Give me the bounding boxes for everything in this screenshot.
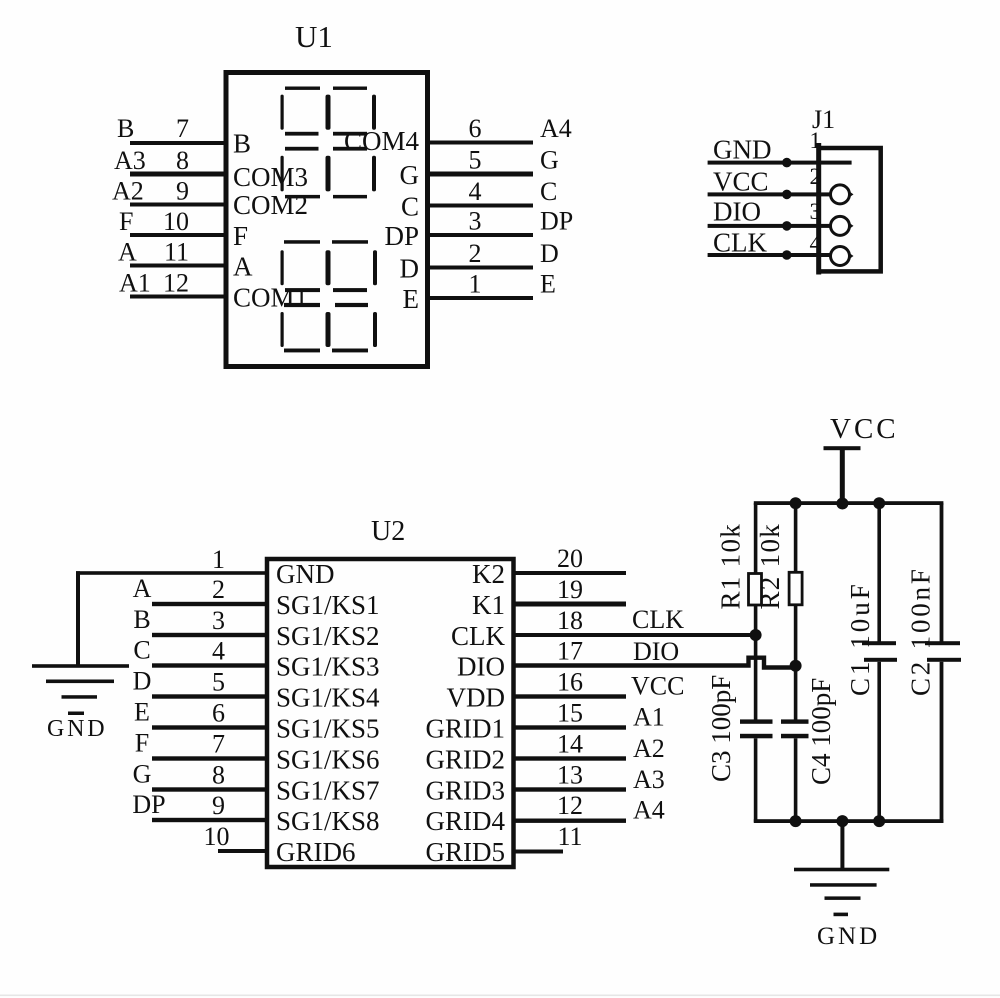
svg-text:GND: GND: [47, 716, 107, 742]
capacitor C1: [862, 641, 896, 645]
svg-text:C: C: [540, 177, 557, 206]
svg-text:14: 14: [557, 730, 583, 759]
wire pin11 A: [130, 264, 226, 268]
svg-text:DIO: DIO: [633, 637, 679, 666]
svg-text:VDD: VDD: [447, 683, 506, 713]
display U1 body: [226, 73, 428, 367]
svg-text:A3: A3: [114, 146, 146, 175]
capacitor C4: [781, 719, 809, 723]
svg-text:COM3: COM3: [233, 162, 308, 192]
svg-text:8: 8: [212, 761, 225, 790]
wire pin9 COM2: [130, 203, 226, 207]
svg-text:11: 11: [164, 238, 189, 267]
svg-text:GRID4: GRID4: [426, 806, 506, 836]
wire CLK to J1 pin4: [708, 253, 831, 257]
svg-text:13: 13: [557, 761, 583, 790]
svg-text:GRID2: GRID2: [426, 745, 506, 775]
svg-text:F: F: [233, 221, 248, 251]
VCC power bar: [824, 446, 861, 450]
svg-text:C1 10uF: C1 10uF: [845, 581, 875, 696]
svg-text:F: F: [119, 207, 133, 236]
svg-text:SG1/KS4: SG1/KS4: [276, 683, 380, 713]
wire pin1 E: [428, 296, 533, 300]
svg-text:DP: DP: [132, 790, 165, 819]
svg-text:K2: K2: [472, 559, 505, 589]
wire pin20 K2: [514, 571, 627, 575]
wire C1 to bottom rail: [877, 662, 881, 823]
bottom rail wire: [754, 819, 944, 823]
svg-text:2: 2: [469, 239, 482, 268]
svg-text:6: 6: [212, 699, 225, 728]
resistor R1: [749, 574, 762, 606]
svg-text:C: C: [401, 192, 419, 222]
svg-text:3: 3: [469, 207, 482, 236]
wire pin15 GRID1: [514, 725, 627, 729]
svg-text:DIO: DIO: [713, 197, 761, 227]
wire pin4 C: [152, 663, 267, 667]
svg-text:A4: A4: [540, 114, 572, 143]
junction dot rail/VCC: [836, 498, 848, 510]
svg-text:12: 12: [557, 791, 583, 820]
wire pin16 VDD: [514, 694, 627, 698]
svg-text:DIO: DIO: [457, 652, 505, 682]
svg-text:18: 18: [557, 606, 583, 635]
svg-text:11: 11: [557, 822, 582, 851]
capacitor C2: [925, 641, 960, 645]
svg-text:4: 4: [212, 637, 225, 666]
VCC stem: [840, 448, 845, 505]
svg-text:2: 2: [810, 164, 822, 189]
svg-text:SG1/KS1: SG1/KS1: [276, 590, 380, 620]
pin2 contact circle: [831, 185, 850, 204]
pin3 contact circle: [831, 216, 850, 235]
svg-text:A: A: [133, 574, 152, 603]
svg-text:G: G: [400, 160, 420, 190]
wire pin18 CLK: [514, 633, 757, 637]
svg-text:15: 15: [557, 699, 583, 728]
junction on DIO wire: [782, 221, 792, 231]
svg-text:5: 5: [469, 146, 482, 175]
svg-text:R2 10k: R2 10k: [755, 523, 785, 610]
svg-text:C2 100nF: C2 100nF: [906, 566, 936, 696]
wire pin11 GRID5: [514, 850, 564, 854]
junction dot bottom/GND: [836, 815, 848, 827]
ground symbol left: [32, 664, 129, 715]
svg-text:7: 7: [176, 114, 189, 143]
svg-text:GRID3: GRID3: [426, 776, 506, 806]
junction on VCC wire: [782, 190, 792, 200]
junction on CLK wire: [782, 250, 792, 260]
wire pin19 K1: [514, 602, 627, 607]
wire R1 to CLK node: [754, 605, 758, 636]
svg-text:2: 2: [212, 575, 225, 604]
wire pin5 D: [152, 694, 267, 698]
junction dot rail/R2: [790, 497, 802, 509]
svg-text:SG1/KS5: SG1/KS5: [276, 714, 380, 744]
svg-text:1: 1: [810, 128, 822, 153]
svg-text:A1: A1: [119, 269, 151, 298]
svg-text:GRID1: GRID1: [426, 714, 506, 744]
wire CLK node to C3: [754, 635, 758, 721]
svg-text:17: 17: [557, 637, 583, 666]
wire pin1 GND: [76, 571, 267, 575]
svg-text:DP: DP: [540, 207, 573, 236]
wire DIO to J1 pin3: [708, 224, 831, 228]
junction dot C1/bottom rail: [873, 815, 885, 827]
wire pin7 B: [130, 141, 226, 145]
svg-text:3: 3: [810, 199, 822, 224]
wire pin8 COM3: [130, 172, 226, 177]
wire pin8 G: [152, 787, 267, 791]
wire to ground: [840, 821, 844, 870]
svg-text:A3: A3: [633, 765, 665, 794]
svg-text:CLK: CLK: [451, 621, 506, 651]
svg-text:F: F: [135, 728, 149, 757]
svg-text:D: D: [540, 239, 559, 268]
wire rail to R1: [754, 503, 758, 574]
svg-text:20: 20: [557, 544, 583, 573]
capacitor C3: [740, 719, 773, 723]
svg-text:8: 8: [176, 146, 189, 175]
svg-text:E: E: [134, 698, 150, 727]
svg-text:SG1/KS8: SG1/KS8: [276, 806, 380, 836]
svg-text:9: 9: [176, 177, 189, 206]
svg-text:G: G: [540, 146, 559, 175]
svg-text:A1: A1: [633, 703, 665, 732]
junction on GND wire: [782, 158, 792, 168]
svg-text:GND: GND: [276, 559, 335, 589]
wire pin12 COM1: [130, 295, 226, 299]
svg-text:SG1/KS2: SG1/KS2: [276, 621, 380, 651]
wire pin10 GRID6: [218, 849, 267, 853]
svg-text:VCC: VCC: [713, 167, 769, 197]
wire pin13 GRID3: [514, 787, 627, 791]
svg-text:GND: GND: [817, 923, 880, 950]
resistor R2: [789, 572, 802, 605]
svg-text:D: D: [133, 667, 152, 696]
wire pin2 A: [152, 602, 267, 606]
wire pin2 D: [428, 266, 533, 270]
connector J1 body: [819, 148, 881, 271]
svg-text:SG1/KS6: SG1/KS6: [276, 745, 380, 775]
svg-text:B: B: [117, 114, 134, 143]
wire C3 to bottom rail: [754, 738, 758, 822]
svg-text:C: C: [133, 636, 150, 665]
wire pin3 DP: [428, 233, 533, 237]
svg-text:GRID5: GRID5: [426, 837, 506, 867]
svg-text:COM1: COM1: [233, 283, 308, 313]
wire pin4 C: [428, 204, 533, 208]
svg-text:19: 19: [557, 575, 583, 604]
svg-text:D: D: [400, 254, 420, 284]
pin4 contact circle: [831, 247, 850, 266]
svg-text:B: B: [233, 129, 251, 159]
wire VCC to J1 pin2: [708, 192, 831, 196]
svg-text:A2: A2: [633, 734, 665, 763]
wire pin6 A4: [428, 141, 533, 145]
svg-text:G: G: [133, 759, 152, 788]
junction dot rail/C1: [873, 497, 885, 509]
svg-text:C4 100pF: C4 100pF: [806, 678, 836, 785]
junction dot C4/bottom rail: [790, 815, 802, 827]
svg-text:9: 9: [212, 791, 225, 820]
wire pin1 vertical drop: [76, 571, 80, 666]
svg-text:7: 7: [212, 730, 225, 759]
wire pin14 GRID2: [514, 756, 627, 760]
svg-text:10: 10: [163, 207, 189, 236]
svg-text:COM2: COM2: [233, 190, 308, 220]
wire DIO node to C4: [794, 666, 798, 721]
svg-text:E: E: [403, 284, 420, 314]
wire rail corner to C2: [940, 503, 944, 644]
svg-text:3: 3: [212, 606, 225, 635]
svg-text:A: A: [233, 252, 253, 282]
svg-text:4: 4: [810, 231, 822, 256]
svg-text:SG1/KS7: SG1/KS7: [276, 776, 380, 806]
svg-text:GND: GND: [713, 135, 772, 165]
wire pin9 DP: [152, 818, 267, 822]
wire GND to J1 pin1: [708, 161, 852, 165]
wire pin17 DIO with hop over R1 branch: [514, 658, 796, 668]
svg-text:1: 1: [469, 270, 482, 299]
wire rail to C1: [877, 503, 881, 644]
wire R2 to DIO node: [794, 605, 798, 666]
svg-text:U1: U1: [295, 19, 333, 54]
junction dot CLK node: [750, 629, 762, 641]
svg-text:COM4: COM4: [344, 126, 420, 156]
wire C4 to bottom rail: [794, 738, 798, 822]
svg-text:R1 10k: R1 10k: [716, 523, 746, 610]
seven-segment glyph, lower pair: [281, 240, 378, 352]
svg-text:VCC: VCC: [631, 672, 684, 701]
seven-segment glyph, upper pair: [281, 87, 377, 199]
svg-text:1: 1: [212, 545, 225, 574]
svg-text:K1: K1: [472, 590, 505, 620]
svg-text:6: 6: [469, 114, 482, 143]
svg-text:CLK: CLK: [632, 605, 684, 634]
svg-text:VCC: VCC: [830, 413, 899, 445]
svg-text:10: 10: [204, 822, 230, 851]
wire rail to R2: [794, 503, 798, 573]
svg-text:U2: U2: [371, 516, 405, 547]
wire pin10 F: [130, 233, 226, 237]
svg-text:A2: A2: [112, 177, 144, 206]
svg-text:12: 12: [163, 269, 189, 298]
svg-text:SG1/KS3: SG1/KS3: [276, 652, 380, 682]
wire pin3 B: [152, 633, 267, 637]
top rail wire: [754, 501, 944, 505]
IC U2 body: [267, 559, 514, 867]
svg-text:B: B: [133, 605, 150, 634]
svg-text:A: A: [118, 238, 137, 267]
svg-text:E: E: [540, 270, 556, 299]
svg-text:5: 5: [212, 668, 225, 697]
ground symbol right: [794, 868, 889, 916]
wire pin5 G: [428, 172, 533, 177]
svg-text:4: 4: [469, 177, 482, 206]
wire pin6 E: [152, 725, 267, 729]
wire C2 to bottom rail: [940, 662, 944, 823]
wire pin12 GRID4: [514, 819, 627, 823]
svg-text:C3 100pF: C3 100pF: [706, 675, 736, 782]
svg-text:GRID6: GRID6: [276, 837, 356, 867]
svg-text:A4: A4: [633, 796, 665, 825]
connector J1 left edge bar: [816, 143, 821, 275]
svg-text:CLK: CLK: [713, 228, 768, 258]
junction dot DIO node: [790, 660, 802, 672]
svg-text:DP: DP: [384, 221, 419, 251]
wire pin7 F: [152, 756, 267, 760]
svg-text:16: 16: [557, 668, 583, 697]
